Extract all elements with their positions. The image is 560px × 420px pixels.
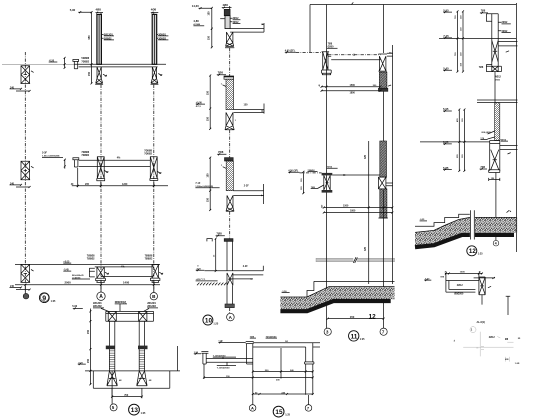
- svg-text:9: 9: [42, 295, 46, 302]
- svg-text:5,95: 5,95: [443, 8, 449, 12]
- svg-text:150: 150: [207, 90, 210, 95]
- svg-text:2Ø12: 2Ø12: [489, 336, 496, 339]
- svg-text:40: 40: [318, 84, 321, 86]
- svg-text:5,95: 5,95: [443, 107, 449, 111]
- svg-text:1Ø: 1Ø: [285, 341, 288, 343]
- svg-text:1:25: 1:25: [51, 300, 56, 303]
- svg-text:5,90: 5,90: [70, 8, 76, 12]
- svg-text:7Ø8Ø2: 7Ø8Ø2: [144, 153, 152, 156]
- svg-text:15: 15: [275, 409, 283, 416]
- svg-text:7Ø8: 7Ø8: [479, 66, 484, 69]
- svg-text:205: 205: [85, 183, 90, 186]
- svg-text:7Ø8: 7Ø8: [216, 232, 222, 236]
- svg-text:150: 150: [207, 197, 210, 202]
- svg-text:1:25: 1:25: [141, 412, 146, 415]
- svg-text:7Ø8: 7Ø8: [218, 150, 224, 154]
- svg-text:325: 325: [364, 246, 367, 251]
- svg-text:150: 150: [207, 173, 210, 178]
- svg-text:JL-3(1): JL-3(1): [476, 320, 485, 324]
- svg-text:150: 150: [244, 104, 249, 107]
- svg-text:240: 240: [10, 285, 15, 288]
- svg-text:40: 40: [479, 271, 481, 274]
- svg-text:150: 150: [87, 358, 90, 363]
- svg-text:2Ø12Ø1: 2Ø12Ø1: [147, 303, 156, 305]
- svg-text:150: 150: [207, 116, 210, 121]
- svg-text:ØØ: ØØ: [505, 359, 509, 361]
- svg-text:A: A: [251, 406, 254, 411]
- svg-text:7Ø8: 7Ø8: [480, 166, 485, 169]
- svg-text:1220: 1220: [122, 183, 128, 186]
- svg-text:7Ø8Ø2: 7Ø8Ø2: [81, 154, 89, 157]
- svg-text:7Ø8Ø2: 7Ø8Ø2: [87, 258, 95, 261]
- svg-text:240: 240: [320, 205, 323, 208]
- svg-text:7Ø8: 7Ø8: [218, 71, 224, 75]
- svg-text:2000: 2000: [65, 281, 72, 285]
- svg-text:1500: 1500: [343, 205, 349, 208]
- svg-text:950: 950: [88, 35, 91, 40]
- svg-text:150: 150: [88, 71, 91, 76]
- svg-text:13: 13: [131, 407, 139, 414]
- svg-text:11: 11: [351, 333, 358, 340]
- svg-text:7Ø8: 7Ø8: [481, 10, 486, 13]
- svg-text:150: 150: [350, 315, 355, 319]
- svg-text:4%: 4%: [389, 52, 392, 55]
- svg-text:4,80: 4,80: [193, 19, 199, 23]
- svg-text:12: 12: [369, 313, 377, 320]
- svg-text:240: 240: [10, 182, 15, 185]
- svg-text:5,45: 5,45: [443, 66, 449, 70]
- svg-text:1:25: 1:25: [213, 323, 218, 326]
- svg-text:2-2F: 2-2F: [244, 185, 249, 188]
- svg-text:10: 10: [205, 317, 213, 324]
- svg-text:4Ø8: 4Ø8: [223, 3, 229, 7]
- svg-text:2Ø12Ø1: 2Ø12Ø1: [93, 303, 102, 305]
- svg-text:1:2Ø: 1:2Ø: [515, 363, 520, 365]
- svg-text:2-2F: 2-2F: [243, 265, 248, 268]
- svg-text:1:25: 1:25: [285, 414, 290, 417]
- svg-text:Ø-7,5: Ø-7,5: [196, 106, 202, 108]
- svg-text:1500: 1500: [350, 84, 356, 87]
- svg-text:1800: 1800: [350, 92, 356, 95]
- svg-text:150: 150: [208, 11, 211, 16]
- svg-text:7Ø8Ø2: 7Ø8Ø2: [145, 258, 153, 261]
- svg-text:200 (400): 200 (400): [481, 131, 491, 134]
- svg-text:7-1F: 7-1F: [195, 182, 200, 185]
- svg-text:150: 150: [208, 35, 211, 40]
- svg-text:14,30: 14,30: [192, 4, 199, 8]
- svg-text:4: 4: [495, 242, 497, 246]
- svg-text:1:25: 1:25: [360, 338, 365, 341]
- svg-text:240: 240: [10, 86, 15, 89]
- svg-text:7,45: 7,45: [443, 34, 449, 38]
- svg-text:A: A: [99, 294, 103, 300]
- svg-text:150: 150: [87, 329, 90, 334]
- svg-text:325: 325: [364, 154, 367, 159]
- svg-text:1:25: 1:25: [478, 252, 483, 255]
- svg-text:7Ø8Ø2: 7Ø8Ø2: [81, 60, 89, 63]
- svg-text:12: 12: [469, 248, 476, 255]
- svg-text:4Ø12: 4Ø12: [495, 76, 502, 79]
- svg-text:1500: 1500: [460, 272, 466, 274]
- svg-text:1400: 1400: [123, 281, 130, 285]
- svg-text:2Ø12: 2Ø12: [457, 284, 464, 287]
- svg-text:3-3F: 3-3F: [42, 151, 47, 154]
- svg-text:40: 40: [445, 271, 447, 274]
- svg-text:5,85: 5,85: [443, 166, 449, 170]
- svg-text:7-1Ø12Ø150: 7-1Ø12Ø150: [217, 367, 230, 369]
- svg-text:4Ø8: 4Ø8: [151, 8, 157, 12]
- svg-text:Ø8Ø200: Ø8Ø200: [454, 293, 464, 296]
- svg-text:700: 700: [124, 394, 129, 397]
- svg-text:4Ø8: 4Ø8: [96, 8, 102, 12]
- svg-text:1800: 1800: [350, 210, 356, 213]
